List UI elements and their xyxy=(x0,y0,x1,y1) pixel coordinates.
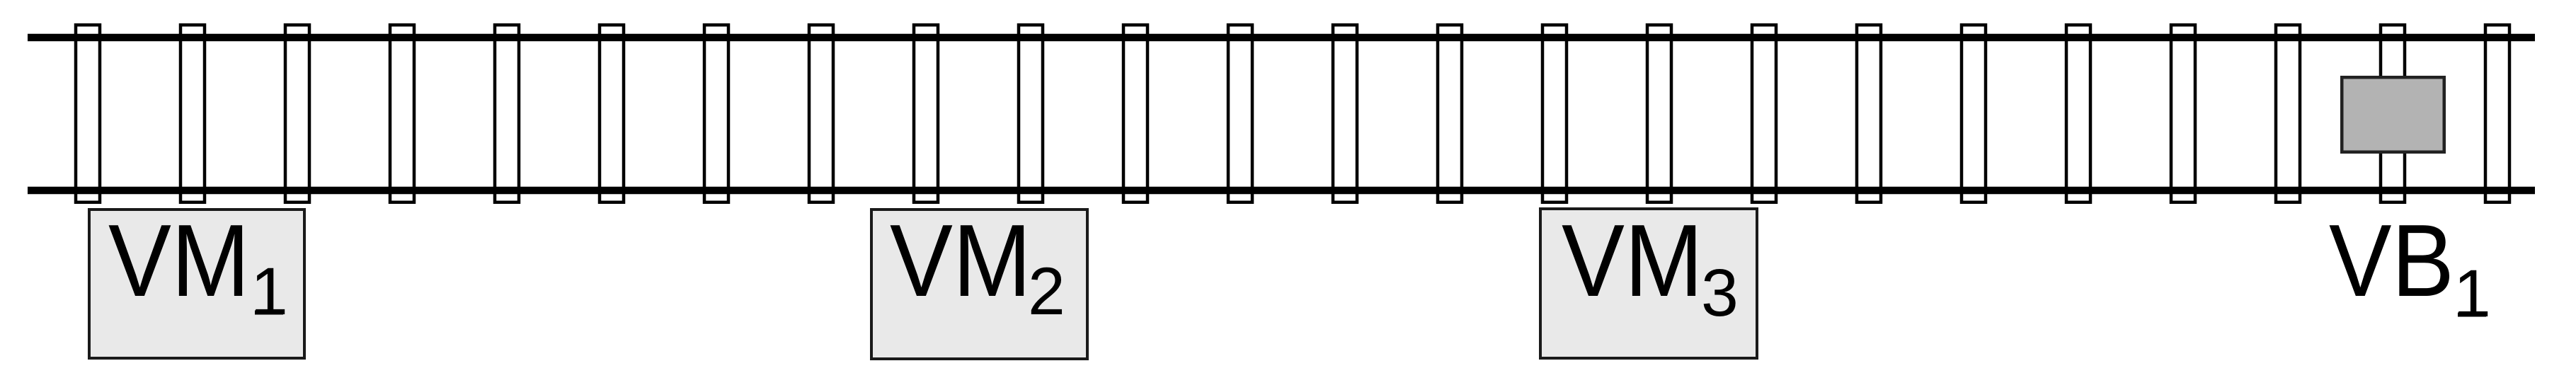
balise VB1 (grey box on track) xyxy=(2342,77,2444,152)
sleeper S19 xyxy=(1962,25,1986,202)
label VM2 xyxy=(890,203,1065,329)
sleeper S9 xyxy=(914,25,938,202)
sleeper S21 xyxy=(2171,25,2195,202)
sleeper S5 xyxy=(495,25,519,202)
sleeper S7 xyxy=(704,25,728,202)
sleeper S22 xyxy=(2276,25,2300,202)
sleeper S8 xyxy=(809,25,833,202)
svg-text:1: 1 xyxy=(2454,256,2491,331)
sleeper S20 xyxy=(2066,25,2090,202)
sleeper S17 xyxy=(1752,25,1776,202)
sleeper S15 xyxy=(1542,25,1567,202)
svg-text:VB: VB xyxy=(2329,203,2454,318)
sleeper S24 xyxy=(2485,25,2509,202)
sleeper S6 xyxy=(600,25,624,202)
rail top xyxy=(28,34,2535,42)
label VM1 xyxy=(108,203,288,329)
sleeper S13 xyxy=(1333,25,1357,202)
sleeper S4 xyxy=(390,25,414,202)
sleeper S2 xyxy=(181,25,205,202)
sleeper S1 xyxy=(76,25,100,202)
box VM1 xyxy=(89,210,304,358)
sleeper S10 xyxy=(1019,25,1043,202)
sleeper S18 xyxy=(1857,25,1881,202)
sleeper S23 xyxy=(2381,25,2405,202)
sleeper S3 xyxy=(285,25,309,202)
sleeper S11 xyxy=(1123,25,1147,202)
label VB1 xyxy=(2329,203,2491,331)
svg-text:1: 1 xyxy=(251,254,288,329)
sleeper S12 xyxy=(1228,25,1252,202)
label VM3 xyxy=(1562,203,1739,331)
svg-text:VM: VM xyxy=(1562,203,1703,318)
box VM2 xyxy=(871,210,1087,359)
rail bottom xyxy=(28,187,2535,195)
svg-text:VM: VM xyxy=(890,203,1031,318)
box VM3 xyxy=(1540,209,1757,358)
svg-text:VM: VM xyxy=(108,203,250,318)
sleeper S16 xyxy=(1647,25,1671,202)
svg-text:3: 3 xyxy=(1701,256,1739,331)
svg-text:2: 2 xyxy=(1028,254,1065,329)
sleeper S14 xyxy=(1438,25,1462,202)
